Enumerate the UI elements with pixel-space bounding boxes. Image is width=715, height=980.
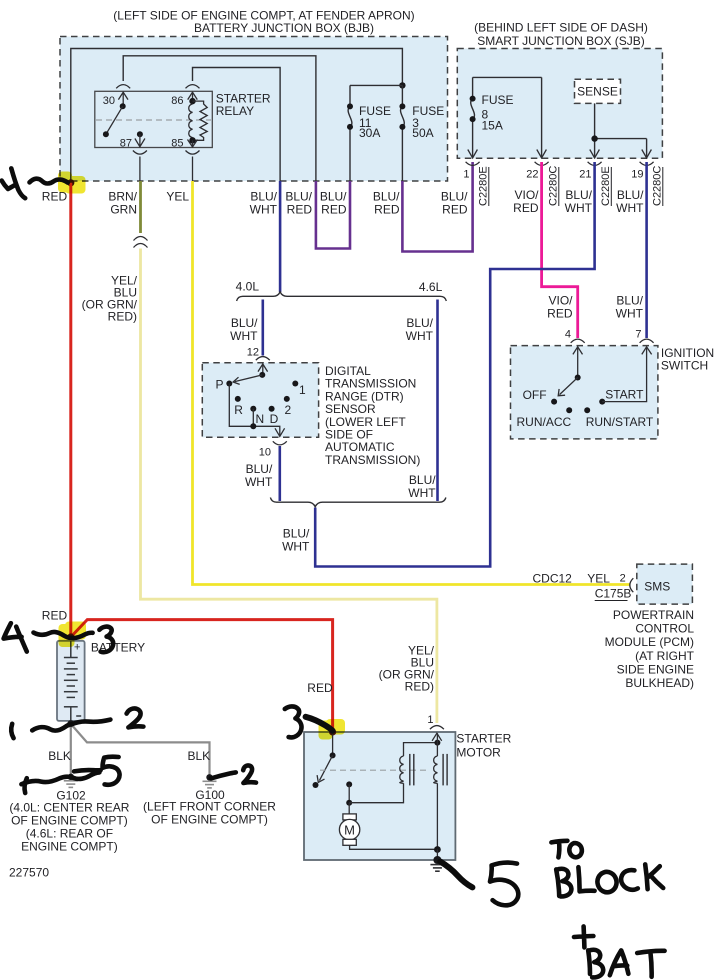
svg-text:RED: RED	[374, 203, 400, 217]
svg-text:(4.6L: REAR OF: (4.6L: REAR OF	[26, 827, 113, 841]
relay pin 86 connector	[186, 85, 200, 89]
DTR switch internals	[262, 364, 264, 375]
wire sense to pins 21 and 19	[595, 103, 647, 158]
wire 4.6L branch to lower brace	[436, 300, 439, 502]
wire fuse bus	[350, 84, 402, 86]
SENSE box	[575, 79, 621, 103]
svg-text:OFF: OFF	[523, 388, 547, 402]
wire BLU/WHT pin21 sense bus to DTR brace	[315, 162, 594, 567]
svg-text:4.6L: 4.6L	[419, 280, 443, 294]
annotation 2 G100	[243, 765, 256, 783]
starter hold-in winding	[434, 740, 440, 746]
svg-text:2: 2	[620, 573, 626, 585]
svg-text:22: 22	[526, 169, 538, 181]
svg-text:15A: 15A	[482, 119, 503, 133]
svg-text:(LEFT FRONT CORNER: (LEFT FRONT CORNER	[143, 800, 276, 814]
svg-text:RED: RED	[42, 608, 68, 622]
wire relay86 to BJB exit	[193, 68, 281, 182]
annotation 1 battery bottom	[11, 724, 13, 738]
relay pin 30 connector	[116, 85, 130, 89]
svg-text:WHT: WHT	[616, 201, 644, 215]
node BJB red feed junction	[67, 179, 74, 186]
wire RED battery feed	[69, 183, 72, 637]
wire pin22 from fuse8 bus	[541, 77, 543, 158]
wire BLU/RED loop relay30 to fuse11	[316, 181, 350, 249]
svg-text:WHT: WHT	[565, 201, 593, 215]
annotation plus	[574, 926, 593, 947]
node battery negative junction	[67, 720, 74, 727]
svg-text:OF ENGINE COMPT): OF ENGINE COMPT)	[11, 814, 128, 828]
svg-text:C2280C: C2280C	[652, 166, 664, 206]
battery	[57, 641, 85, 721]
svg-text:BLK: BLK	[188, 749, 211, 763]
svg-text:MODULE (PCM): MODULE (PCM)	[605, 635, 694, 649]
highlight battery positive	[59, 622, 87, 648]
svg-text:50A: 50A	[412, 126, 433, 140]
fuse F11 30A	[348, 85, 352, 181]
svg-text:WHT: WHT	[406, 329, 434, 343]
wire VIO/RED pin22 to ignition pin4	[542, 162, 578, 338]
svg-text:RED: RED	[513, 201, 539, 215]
svg-text:N: N	[256, 412, 265, 426]
svg-text:19: 19	[631, 169, 643, 181]
svg-text:1: 1	[463, 169, 469, 181]
svg-text:BLU/: BLU/	[283, 527, 310, 541]
fuse F3 50A	[401, 85, 405, 181]
SJB pin 22 connector	[535, 150, 549, 166]
ground G102	[68, 774, 74, 780]
ground G100	[206, 774, 212, 780]
svg-text:GRN: GRN	[110, 203, 137, 217]
svg-text:BLU/: BLU/	[406, 316, 433, 330]
annotation 4 battery	[4, 623, 27, 651]
wire DTR pin10 down	[278, 446, 281, 501]
DTR sensor box	[202, 363, 318, 438]
svg-text:M: M	[344, 822, 355, 837]
annotation 2 battery bottom	[127, 708, 144, 727]
svg-text:VIO/: VIO/	[514, 188, 539, 202]
dashed mechanical link in relay	[96, 119, 211, 121]
svg-text:START: START	[605, 388, 644, 402]
wire relay30 to BJB exit	[123, 56, 316, 181]
svg-text:CONTROL: CONTROL	[635, 622, 694, 636]
svg-text:SMART JUNCTION BOX (SJB): SMART JUNCTION BOX (SJB)	[477, 34, 645, 48]
brace 4.0L/4.6L split	[237, 292, 447, 301]
svg-text:21: 21	[579, 169, 591, 181]
SJB pin 21 connector	[588, 150, 602, 166]
svg-text:87: 87	[120, 138, 132, 150]
svg-text:BULKHEAD): BULKHEAD)	[625, 676, 694, 690]
ignition switch internals	[577, 347, 579, 378]
svg-text:POWERTRAIN: POWERTRAIN	[613, 608, 694, 622]
svg-text:P: P	[216, 378, 224, 392]
annotation 1 G102	[25, 778, 27, 793]
fuse F8 15A in SJB	[471, 77, 542, 158]
svg-text:BLU/: BLU/	[373, 190, 400, 204]
annotation squiggle battery bottom	[32, 720, 110, 731]
inline connector on BRN/GRN wire	[134, 237, 148, 248]
svg-text:MOTOR: MOTOR	[456, 745, 501, 759]
svg-text:85: 85	[171, 138, 183, 150]
highlight starter input	[319, 719, 346, 740]
svg-text:(AT RIGHT: (AT RIGHT	[635, 649, 695, 663]
svg-text:WHT: WHT	[245, 475, 273, 489]
relay coil	[189, 98, 195, 104]
svg-text:YEL: YEL	[166, 190, 189, 204]
svg-text:BLU/: BLU/	[250, 190, 277, 204]
resistor across relay coil	[193, 101, 208, 140]
svg-text:WHT: WHT	[250, 203, 278, 217]
svg-text:12: 12	[247, 346, 259, 358]
svg-text:RED: RED	[287, 203, 313, 217]
SJB pin 19 connector	[640, 150, 654, 166]
annotation squiggle G102	[21, 772, 99, 784]
svg-text:BLU/: BLU/	[320, 190, 347, 204]
svg-text:ENGINE COMPT): ENGINE COMPT)	[21, 840, 118, 854]
wire YEL relay85 to PCM	[193, 181, 630, 585]
svg-text:RED: RED	[442, 203, 468, 217]
svg-text:BLK: BLK	[48, 749, 71, 763]
svg-text:RED: RED	[321, 203, 347, 217]
svg-text:1: 1	[427, 714, 433, 726]
svg-text:(BEHIND LEFT SIDE OF DASH): (BEHIND LEFT SIDE OF DASH)	[474, 21, 648, 35]
svg-text:C175B: C175B	[595, 587, 632, 601]
annotation 5 bottom	[490, 863, 518, 906]
svg-text:4.0L: 4.0L	[236, 280, 260, 294]
annotation swoosh starter ground	[440, 862, 472, 888]
svg-text:SWITCH: SWITCH	[661, 358, 708, 372]
svg-text:CDC12: CDC12	[533, 572, 573, 586]
wire YEL/BLU to starter pin1	[141, 249, 437, 724]
PCM SMS box	[637, 564, 693, 604]
starter solenoid switch	[329, 728, 336, 735]
svg-text:WHT: WHT	[230, 329, 258, 343]
svg-text:SMS: SMS	[644, 580, 670, 594]
relay box starter relay	[95, 91, 213, 147]
svg-text:RED): RED)	[405, 680, 434, 694]
annotation TO	[551, 841, 581, 858]
annotation bar to 5	[74, 770, 101, 771]
node battery positive junction	[67, 633, 74, 640]
svg-text:RELAY: RELAY	[216, 104, 254, 118]
svg-text:RUN/ACC: RUN/ACC	[517, 415, 572, 429]
wire BLU/RED loop fuse3 to SJB fuse8	[402, 162, 472, 252]
starter contact to windings	[346, 781, 352, 787]
svg-text:RUN/START: RUN/START	[586, 415, 654, 429]
wire BLU/WHT relay86 trunk to 4.0L/4.6L brace	[279, 181, 282, 292]
battery junction box BJB	[60, 37, 448, 182]
svg-text:1: 1	[299, 383, 306, 397]
DTR pin 10 connector	[275, 428, 285, 436]
svg-text:BATTERY JUNCTION BOX (BJB): BATTERY JUNCTION BOX (BJB)	[194, 21, 374, 35]
svg-text:30: 30	[103, 95, 115, 107]
svg-text:10: 10	[259, 447, 271, 459]
wire BRN/GRN relay87 below BJB	[139, 181, 142, 233]
highlight BJB junction	[58, 172, 86, 194]
svg-text:RED: RED	[307, 681, 333, 695]
svg-text:BLU/: BLU/	[409, 473, 436, 487]
svg-text:BLU/: BLU/	[441, 190, 468, 204]
starter motor M	[348, 803, 350, 814]
SJB pin 1 connector	[466, 150, 480, 166]
svg-text:+: +	[74, 642, 80, 654]
svg-text:BLU/: BLU/	[565, 188, 592, 202]
svg-text:BLU/: BLU/	[246, 462, 273, 476]
svg-text:2: 2	[285, 403, 292, 417]
svg-text:30A: 30A	[359, 126, 380, 140]
svg-text:FUSE: FUSE	[482, 93, 514, 107]
annotation BAT	[588, 950, 603, 978]
svg-text:YEL: YEL	[587, 572, 610, 586]
svg-text:RED: RED	[547, 307, 573, 321]
wire BLK battery to G102	[70, 724, 72, 777]
svg-text:BLU/: BLU/	[285, 190, 312, 204]
brace merge below DTR	[270, 498, 446, 507]
relay pin 87	[137, 131, 143, 137]
wire BLU/WHT pin19 to ignition pin7	[645, 162, 648, 338]
svg-text:BRN/: BRN/	[108, 190, 137, 204]
annotation swoosh starter	[306, 717, 333, 731]
svg-text:TRANSMISSION): TRANSMISSION)	[325, 453, 420, 467]
relay switch	[120, 103, 126, 109]
svg-text:VIO/: VIO/	[548, 294, 573, 308]
svg-text:BLU/: BLU/	[617, 188, 644, 202]
svg-text:WHT: WHT	[282, 540, 310, 554]
node fuse bus junction	[399, 82, 405, 88]
svg-text:7: 7	[635, 329, 641, 341]
wire battery feed inside BJB	[71, 49, 403, 182]
annotation 5 G102	[103, 757, 120, 785]
svg-text:C2280E: C2280E	[600, 166, 612, 206]
starter motor box	[304, 732, 455, 860]
svg-text:D: D	[270, 412, 279, 426]
svg-text:SIDE ENGINE: SIDE ENGINE	[617, 662, 694, 676]
annotation squiggle to BJB junction	[30, 179, 68, 184]
svg-text:SENSE: SENSE	[577, 85, 618, 99]
annotation stroke G100	[211, 772, 236, 778]
relay pin 85	[189, 137, 195, 143]
wire 4.0L branch to DTR pin12	[261, 300, 264, 356]
smart junction box SJB	[457, 49, 662, 159]
wire BLK battery to G100	[71, 724, 210, 777]
annotation 4 top left	[2, 168, 26, 198]
svg-text:R: R	[234, 403, 243, 417]
svg-text:227570: 227570	[9, 866, 49, 880]
svg-text:BLU/: BLU/	[616, 294, 643, 308]
svg-text:WHT: WHT	[616, 307, 644, 321]
svg-text:RED): RED)	[108, 310, 137, 324]
svg-text:4: 4	[565, 329, 571, 341]
annotation 3 battery	[99, 627, 113, 653]
svg-text:C2280C: C2280C	[548, 166, 560, 206]
annotation 3 starter	[285, 706, 302, 737]
svg-text:BLU/: BLU/	[231, 316, 258, 330]
svg-text:STARTER: STARTER	[456, 732, 511, 746]
svg-text:C2280E: C2280E	[478, 166, 490, 206]
svg-text:86: 86	[171, 95, 183, 107]
svg-text:(4.0L: CENTER REAR: (4.0L: CENTER REAR	[9, 801, 129, 815]
starter dashed link	[320, 769, 430, 771]
starter ground	[436, 850, 438, 861]
starter pull-in winding	[400, 756, 404, 783]
annotation BLOCK	[556, 869, 571, 897]
svg-text:OF ENGINE COMPT): OF ENGINE COMPT)	[151, 813, 268, 827]
annotation squiggle battery top	[34, 632, 93, 638]
svg-text:WHT: WHT	[408, 486, 436, 500]
ignition switch box	[511, 346, 658, 439]
